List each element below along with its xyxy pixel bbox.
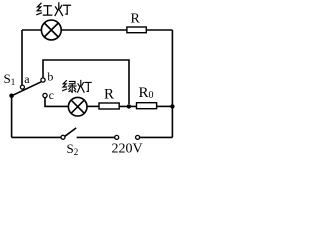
lamp 红灯 (red lamp) bbox=[41, 20, 61, 40]
绿 bbox=[63, 81, 76, 93]
svg-text:R: R bbox=[104, 87, 114, 103]
wire top-left horizontal to red lamp bbox=[22, 29, 42, 31]
node junction dot right vertical bbox=[170, 104, 174, 108]
wire right vertical side bbox=[171, 30, 173, 137]
label 红灯 (hand-drawn glyphs) bbox=[37, 3, 71, 16]
switch S2 blade bbox=[65, 128, 76, 136]
switch S1 contact b bbox=[41, 78, 45, 82]
wire contact b up and across to middle branch bbox=[43, 60, 129, 104]
wire pivot of S1 down to bottom-left corner bbox=[11, 96, 13, 138]
220V source terminal right bbox=[136, 135, 140, 139]
resistor R0 bbox=[137, 103, 157, 109]
switch S2 contact circle bbox=[61, 135, 65, 139]
wire R0 to right vertical bbox=[157, 105, 173, 107]
switch S1 contact a bbox=[20, 85, 24, 89]
svg-text:c: c bbox=[49, 88, 54, 102]
svg-text:R: R bbox=[131, 12, 141, 27]
wire bottom from left corner to switch S2 bbox=[12, 136, 61, 138]
wire switch S2 to 220V left terminal bbox=[77, 136, 115, 138]
wire contact c down and right to green lamp bbox=[45, 98, 68, 107]
switch S1 pivot dot bbox=[9, 94, 14, 99]
wire 220V right terminal to bottom-right corner bbox=[140, 136, 173, 138]
resistor R (top) bbox=[127, 27, 146, 33]
wire red lamp to resistor R top bbox=[61, 29, 127, 31]
svg-text:220V: 220V bbox=[112, 142, 143, 157]
灯 bbox=[78, 80, 92, 92]
wire green lamp to resistor R middle bbox=[87, 105, 99, 107]
灯 bbox=[55, 3, 70, 16]
label 绿灯 (hand-drawn glyphs) bbox=[63, 80, 91, 92]
switch S1 blade bbox=[12, 82, 42, 96]
resistor R (middle) bbox=[99, 103, 119, 109]
lamp 绿灯 (green lamp) bbox=[68, 97, 87, 116]
220V source terminal left bbox=[115, 135, 119, 139]
红 bbox=[37, 3, 52, 15]
svg-text:a: a bbox=[24, 72, 30, 86]
node junction dot between R and R0 bbox=[127, 104, 131, 108]
wire resistor R middle to R0 bbox=[119, 105, 136, 107]
wire resistor R top to top-right corner bbox=[146, 29, 172, 31]
svg-text:b: b bbox=[47, 70, 53, 84]
wire left vertical from top corner down to contact a bbox=[21, 30, 23, 85]
switch S1 contact c bbox=[43, 93, 47, 97]
